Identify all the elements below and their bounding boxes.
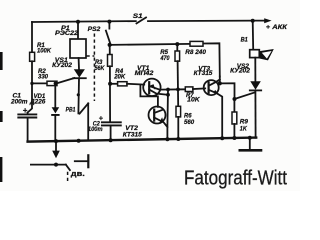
svg-text:56K: 56K — [95, 65, 105, 72]
svg-text:330: 330 — [38, 73, 48, 80]
svg-text:100m: 100m — [88, 126, 103, 133]
svg-text:470: 470 — [160, 55, 170, 62]
svg-text:100K: 100K — [37, 47, 51, 54]
svg-text:дв.: дв. — [71, 169, 85, 178]
svg-text:Д226: Д226 — [29, 98, 46, 105]
svg-text:R9: R9 — [240, 118, 249, 125]
svg-text:+: + — [99, 114, 104, 123]
svg-text:20K: 20K — [113, 73, 125, 80]
svg-text:1K: 1K — [240, 125, 247, 132]
svg-text:B1: B1 — [241, 37, 249, 44]
svg-text:РВ1: РВ1 — [66, 107, 76, 114]
svg-text:КТ315: КТ315 — [194, 70, 213, 77]
svg-text:КУ202: КУ202 — [52, 62, 72, 69]
svg-text:КУ202: КУ202 — [230, 68, 250, 75]
svg-text:РЭС22: РЭС22 — [55, 30, 78, 37]
svg-text:200m: 200m — [10, 98, 28, 105]
svg-text:R8 240: R8 240 — [185, 49, 206, 56]
svg-text:+: + — [23, 106, 28, 115]
svg-text:+ АКК: + АКК — [266, 24, 288, 31]
svg-text:КТ315: КТ315 — [123, 131, 143, 138]
svg-text:560: 560 — [184, 119, 195, 126]
svg-text:S1: S1 — [133, 13, 143, 20]
svg-text:PS2: PS2 — [88, 26, 101, 33]
svg-text:Fatograff-Witt: Fatograff-Witt — [184, 168, 287, 190]
svg-text:10K: 10K — [187, 97, 200, 104]
svg-text:МП42: МП42 — [135, 70, 154, 77]
